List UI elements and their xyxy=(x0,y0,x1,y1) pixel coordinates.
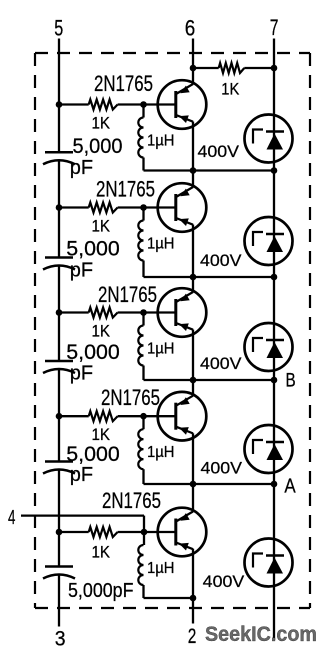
resistor 1K stage 2 xyxy=(59,206,89,208)
svg-text:400V: 400V xyxy=(200,251,242,270)
wire stage 4 emitter row to diode chain xyxy=(193,483,274,485)
svg-text:5,000pF: 5,000pF xyxy=(68,580,134,602)
svg-text:2N1765: 2N1765 xyxy=(102,488,161,513)
diode D3 400V (circled) xyxy=(245,323,293,371)
svg-text:5: 5 xyxy=(54,16,63,41)
wire centre bus Q4 emitter to Q5 collector xyxy=(192,433,194,511)
svg-text:3: 3 xyxy=(55,628,66,651)
svg-text:1µH: 1µH xyxy=(147,236,175,253)
resistor 1K stage 3 xyxy=(59,311,89,313)
capacitor C1 5000pF xyxy=(45,151,73,154)
svg-text:A: A xyxy=(284,476,296,498)
svg-text:1K: 1K xyxy=(92,426,111,444)
svg-text:2N1765: 2N1765 xyxy=(96,177,155,202)
diode D5 400V (circled) xyxy=(245,539,293,587)
svg-text:400V: 400V xyxy=(201,459,243,478)
wire left bus segment C5 to terminal 3 xyxy=(58,575,60,627)
svg-text:400V: 400V xyxy=(198,142,240,161)
dashed enclosure border xyxy=(35,53,310,608)
wire stage 2 emitter row to diode chain xyxy=(193,276,274,278)
diode D4 400V (circled) xyxy=(245,425,293,473)
node junction left bus stage 4 xyxy=(56,413,63,420)
transistor Q4 2N1765 xyxy=(158,392,207,441)
svg-text:1K: 1K xyxy=(92,115,111,133)
svg-text:1µH: 1µH xyxy=(147,560,175,577)
node junction top of centre bus xyxy=(190,65,197,72)
svg-text:1µH: 1µH xyxy=(147,133,175,150)
node junction right bus below D3 xyxy=(271,377,278,384)
svg-text:2N1765: 2N1765 xyxy=(98,282,157,307)
wire left bus segment C2 to C3 xyxy=(58,266,60,362)
resistor 1K stage 4 xyxy=(59,415,89,417)
svg-text:1K: 1K xyxy=(92,323,111,341)
svg-text:1K: 1K xyxy=(221,81,239,99)
svg-text:1µH: 1µH xyxy=(147,444,175,461)
node junction top of right bus xyxy=(271,65,278,72)
node junction centre bus bottom of stage 4 xyxy=(190,481,197,488)
svg-text:1µH: 1µH xyxy=(147,341,175,358)
svg-text:B: B xyxy=(286,371,296,392)
resistor 1K stage 1 xyxy=(59,103,89,105)
wire stage 1 emitter row to diode chain xyxy=(193,169,274,171)
wire left bus segment C4 to C5 xyxy=(58,470,60,567)
wire centre bus terminal 6 to Q1 collector xyxy=(192,39,194,85)
svg-text:2N1765: 2N1765 xyxy=(101,385,160,410)
inductor 1uH stage 1 xyxy=(142,105,144,118)
inductor 1uH stage 2 xyxy=(142,208,144,221)
node junction left bus stage 5 xyxy=(56,529,63,536)
diode D1 400V (circled) xyxy=(245,115,293,163)
node junction left bus stage 2 xyxy=(56,204,63,211)
transistor Q3 2N1765 xyxy=(158,288,207,337)
svg-text:pF: pF xyxy=(70,464,93,486)
wire left bus segment terminal 5 to C1 xyxy=(58,39,60,153)
svg-text:1K: 1K xyxy=(92,218,111,236)
svg-text:pF: pF xyxy=(70,363,93,385)
wire base node to Q1 base xyxy=(144,103,177,105)
capacitor C5 5000pF xyxy=(45,565,73,568)
node junction right bus below D2 xyxy=(271,274,278,281)
node junction right bus below D1 xyxy=(271,167,278,174)
wire stage 3 emitter row to diode chain xyxy=(193,379,274,381)
wire centre bus Q2 emitter to Q3 collector xyxy=(192,225,194,293)
svg-text:4: 4 xyxy=(8,506,15,529)
node base junction stage 4 xyxy=(140,413,147,420)
svg-text:5,000: 5,000 xyxy=(66,341,120,364)
capacitor C4 5000pF xyxy=(45,460,73,463)
node junction centre bus bottom of stage 5 xyxy=(190,595,197,602)
svg-text:2N1765: 2N1765 xyxy=(94,71,153,96)
node junction centre bus bottom of stage 2 xyxy=(190,274,197,281)
resistor 1K stage 5 xyxy=(59,531,89,533)
svg-text:SeekIC.com: SeekIC.com xyxy=(205,623,317,646)
node junction right bus below D4 xyxy=(271,481,278,488)
svg-text:2: 2 xyxy=(188,625,197,648)
wire left bus segment C3 to C4 xyxy=(58,369,60,462)
wire base node to Q5 base xyxy=(144,531,177,533)
inductor 1uH stage 3 xyxy=(142,313,144,326)
transistor Q5 2N1765 xyxy=(158,508,207,557)
transistor Q1 2N1765 xyxy=(158,80,207,129)
wire base node to Q3 base xyxy=(144,311,177,313)
svg-text:400V: 400V xyxy=(200,354,242,373)
svg-text:6: 6 xyxy=(185,16,196,41)
capacitor C2 5000pF xyxy=(45,256,73,259)
node junction left bus stage 3 xyxy=(56,309,63,316)
resistor 1K (top, between terminals 6 and 7) xyxy=(193,67,219,69)
inductor 1uH stage 4 xyxy=(142,416,144,429)
wire base node to Q2 base xyxy=(144,206,177,208)
svg-text:5,000: 5,000 xyxy=(66,238,120,261)
wire left bus segment C1 to C2 xyxy=(58,160,60,257)
node junction centre bus bottom of stage 3 xyxy=(190,377,197,384)
node junction left bus stage 1 xyxy=(56,101,63,108)
svg-text:7: 7 xyxy=(270,15,279,40)
svg-text:1K: 1K xyxy=(92,544,111,562)
svg-text:pF: pF xyxy=(70,260,93,282)
node base junction stage 1 xyxy=(140,101,147,108)
svg-text:5,000: 5,000 xyxy=(66,443,120,466)
wire right bus terminal 7 to bottom xyxy=(273,39,275,641)
transistor Q2 2N1765 xyxy=(158,183,207,232)
diode D2 400V (circled) xyxy=(245,217,293,265)
node base junction stage 2 xyxy=(140,204,147,211)
wire centre bus Q1 emitter to Q2 collector xyxy=(192,122,194,188)
svg-text:pF: pF xyxy=(70,157,93,179)
wire base node to Q4 base xyxy=(144,415,177,417)
node base junction stage 5 xyxy=(141,529,148,536)
svg-text:5,000: 5,000 xyxy=(73,135,123,158)
wire centre bus Q3 emitter to Q4 collector xyxy=(192,330,194,397)
node junction centre bus bottom of stage 1 xyxy=(190,167,197,174)
wire terminal 4 to Q5 base node xyxy=(21,514,144,516)
svg-text:400V: 400V xyxy=(203,572,245,591)
inductor 1uH stage 5 xyxy=(143,532,145,545)
capacitor C3 5000pF xyxy=(45,360,73,363)
wire centre bus Q5 emitter to terminal 2 xyxy=(192,549,194,624)
node base junction stage 3 xyxy=(140,309,147,316)
